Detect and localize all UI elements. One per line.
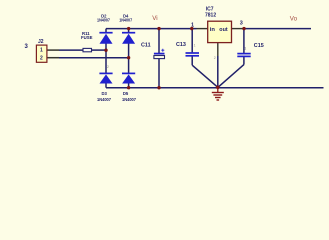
svg-text:C11: C11 (141, 42, 151, 48)
svg-text:2: 2 (214, 56, 216, 60)
svg-text:1: 1 (194, 43, 196, 47)
pin stub J2-1 (47, 49, 59, 51)
wire: left column top (rail to D2) (105, 29, 107, 34)
wire: C13 diagonal to ground node (192, 65, 218, 87)
wire: C13 bottom lead (191, 56, 193, 65)
regulator IC7 7812 (208, 21, 232, 42)
pin 3 stub (regulator out) (232, 28, 245, 30)
svg-text:C15: C15 (254, 43, 264, 49)
wire: C13 top lead (191, 29, 193, 53)
pin 1 stub (regulator in) (197, 28, 208, 30)
diode D5 (122, 73, 135, 83)
fuse R11 (83, 48, 92, 51)
svg-text:out: out (219, 27, 228, 33)
diode D4 (122, 33, 135, 44)
svg-text:1N4007: 1N4007 (97, 18, 111, 23)
wire: D5 anode to bottom rail (128, 84, 130, 88)
wire: right column rail to D4 (128, 29, 130, 34)
wire: D3 anode to bottom rail (105, 84, 107, 88)
wire: C11 bottom lead (158, 59, 160, 88)
junction: bridge left mid node (104, 49, 107, 52)
junction: ground node (216, 86, 220, 90)
diode D2 (99, 33, 112, 44)
capacitor C13 (186, 53, 200, 56)
pin stub J2-2 (47, 57, 59, 59)
wire: right mid node to D5 cathode (128, 58, 130, 74)
wire: regulator GND to ground node (217, 56, 219, 87)
junction: C15 output rail (242, 27, 245, 30)
svg-text:in: in (210, 27, 216, 33)
svg-text:1: 1 (40, 47, 43, 53)
wire: bottom rail (106, 87, 324, 89)
ground (212, 87, 224, 100)
connector J2 (36, 45, 47, 62)
svg-text:Vi: Vi (152, 15, 157, 22)
svg-text:1N4007: 1N4007 (97, 97, 112, 102)
diode D3 (99, 73, 112, 83)
junction: C13 top rail (190, 27, 193, 30)
junction: C11 bottom rail (157, 86, 160, 89)
svg-text:Vo: Vo (290, 16, 298, 23)
svg-text:J2: J2 (38, 39, 44, 45)
wire: C15 diagonal to ground node (218, 65, 244, 88)
svg-text:FUSE: FUSE (81, 35, 93, 40)
svg-text:1N4007: 1N4007 (122, 97, 137, 102)
wire: C15 top lead (243, 29, 245, 53)
pin 2 stub (regulator gnd) (217, 43, 219, 56)
svg-text:2: 2 (40, 56, 43, 62)
junction: D4 top rail (127, 27, 130, 30)
junction: C11 top rail (157, 27, 160, 30)
wire: J2 pin1 to fuse (59, 49, 83, 51)
svg-text:7812: 7812 (205, 13, 216, 19)
svg-text:3: 3 (240, 20, 243, 26)
wire: J2 pin2 to bridge right node (59, 57, 129, 59)
wire: D4 anode to right mid node (128, 44, 130, 58)
svg-text:1: 1 (244, 47, 246, 51)
capacitor C15 (237, 54, 250, 57)
svg-text:C13: C13 (176, 42, 186, 48)
svg-text:1N4007: 1N4007 (119, 18, 133, 23)
svg-text:D3: D3 (102, 91, 108, 96)
wire: D2 anode to mid node (105, 44, 107, 51)
wire: top input rail Vi (106, 28, 197, 30)
wire: output rail Vo (244, 28, 311, 30)
wire: left mid node to D3 cathode (105, 50, 107, 73)
wire: fuse to bridge left node (92, 49, 107, 51)
wire: C11 top lead (158, 29, 160, 54)
capacitor C11 (electrolytic) (154, 49, 165, 59)
svg-text:2: 2 (107, 65, 109, 69)
junction: bridge right mid node (127, 56, 130, 59)
junction: D5 bottom rail (127, 86, 130, 89)
svg-text:D5: D5 (123, 91, 129, 96)
wire: C15 bottom lead (243, 57, 245, 65)
